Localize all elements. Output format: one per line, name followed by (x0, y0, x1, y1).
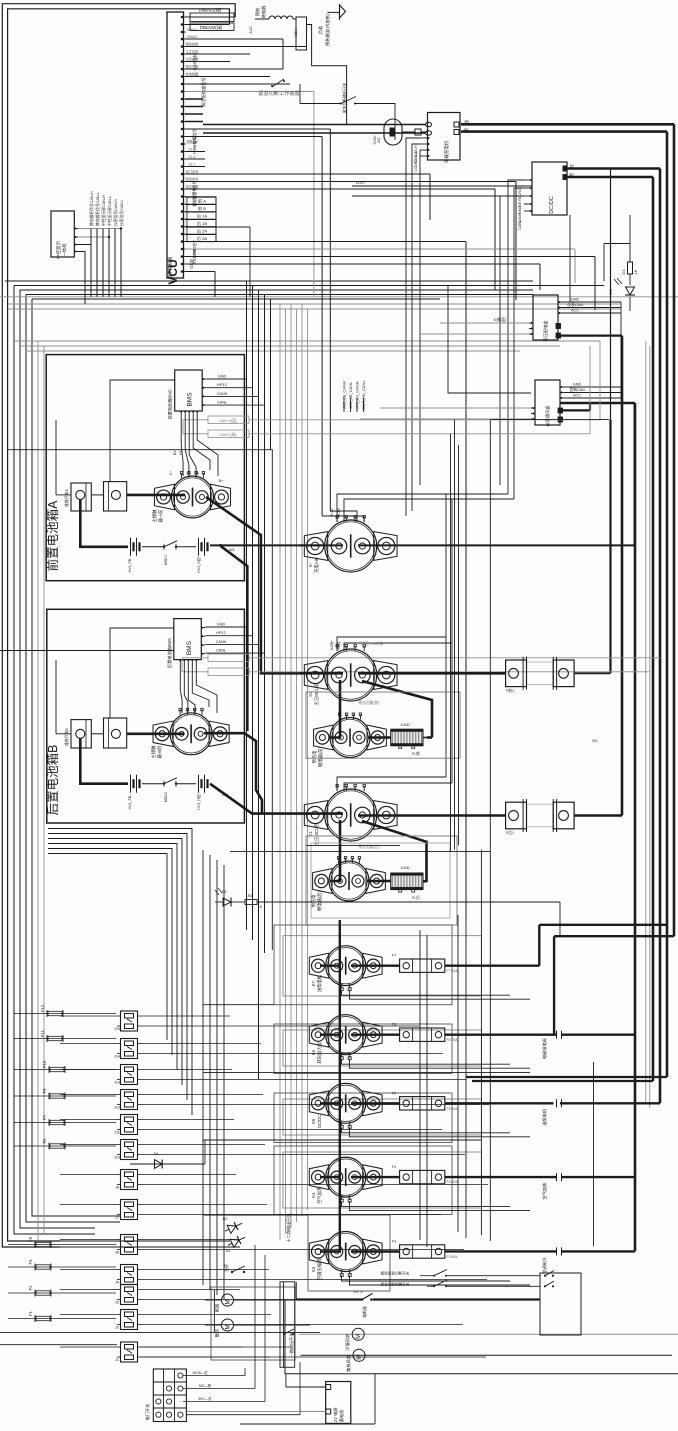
svg-text:F12: F12 (40, 1004, 45, 1012)
svg-text:CANH: CANH (216, 640, 227, 644)
svg-text:BMS: BMS (187, 392, 194, 407)
svg-text:W1: W1 (229, 548, 235, 552)
svg-text:F后1: F后1 (506, 830, 514, 835)
svg-text:16/15—红: 16/15—红 (192, 1370, 208, 1375)
svg-text:F6 20A: F6 20A (447, 1038, 459, 1042)
svg-text:M: M (226, 1300, 232, 1305)
svg-text:一体机: 一体机 (61, 243, 68, 257)
svg-text:负载: 负载 (317, 25, 324, 34)
svg-text:1K: 1K (633, 269, 638, 274)
svg-text:紧急切断工作装置: 紧急切断工作装置 (258, 89, 300, 97)
svg-text:D8&A01(绿): D8&A01(绿) (199, 7, 222, 13)
svg-text:后 1B: 后 1B (197, 220, 207, 226)
svg-text:中控显示: 中控显示 (55, 241, 62, 259)
svg-text:J4: J4 (115, 1281, 119, 1285)
svg-text:J2: J2 (115, 1326, 119, 1330)
svg-text:B+: B+ (219, 479, 225, 483)
svg-text:后置电池箱B: 后置电池箱B (45, 745, 60, 816)
svg-text:HP12: HP12 (216, 631, 226, 635)
svg-text:继电器(后): 继电器(后) (316, 890, 323, 911)
svg-text:100Ω: 100Ω (400, 866, 409, 870)
svg-text:仪表CAN: 仪表CAN (567, 302, 583, 307)
svg-text:K2线-: K2线- (336, 640, 341, 650)
svg-text:电磁吸堵阀: 电磁吸堵阀 (541, 1038, 548, 1059)
svg-text:CAN H(蓝): CAN H(蓝) (219, 418, 238, 423)
svg-text:主接触: 主接触 (151, 509, 158, 523)
svg-text:仪表信号CAN-L: 仪表信号CAN-L (119, 199, 124, 226)
svg-text:转向拨杆信号CAN-L: 转向拨杆信号CAN-L (95, 192, 100, 226)
svg-text:仪表信号CAN-H: 仪表信号CAN-H (113, 199, 118, 226)
svg-text:100Ω: 100Ω (400, 723, 409, 727)
svg-text:K-B2: K-B2 (337, 508, 341, 516)
svg-text:CANL: CANL (217, 401, 227, 405)
svg-text:CC: CC (414, 166, 418, 172)
svg-text:预充回路(后): 预充回路(后) (358, 844, 380, 849)
svg-text:D5&A2: D5&A2 (187, 35, 197, 39)
svg-text:预热塞(缸内加热): 预热塞(缸内加热) (324, 13, 331, 46)
svg-text:J8: J8 (115, 1186, 119, 1190)
svg-text:ACC: ACC (571, 309, 579, 313)
svg-text:GND: GND (218, 375, 227, 379)
svg-text:D2: D2 (223, 1217, 228, 1221)
svg-text:F9: F9 (42, 1088, 47, 1094)
svg-text:K6: K6 (311, 1049, 316, 1055)
svg-text:K-: K- (308, 562, 313, 567)
svg-text:F7 30A: F7 30A (447, 969, 459, 973)
svg-text:B1+: B1+ (173, 449, 177, 456)
svg-text:12V 电源: 12V 电源 (332, 1407, 339, 1425)
svg-text:F7: F7 (42, 1114, 47, 1120)
svg-text:后 2B: 后 2B (197, 235, 207, 241)
svg-text:高压配电盒信号: 高压配电盒信号 (200, 77, 207, 106)
svg-text:D8&A02(绿): D8&A02(绿) (200, 24, 223, 30)
svg-text:主接触: 主接触 (150, 745, 157, 759)
svg-text:KEY3: KEY3 (518, 197, 522, 207)
svg-text:GND: GND (414, 159, 418, 168)
svg-text:整车控制器: 整车控制器 (167, 256, 174, 279)
svg-text:220V: 220V (372, 135, 377, 145)
svg-text:F2: F2 (28, 1285, 33, 1291)
svg-text:K1-7: K1-7 (189, 162, 196, 166)
svg-text:GND: GND (571, 298, 580, 302)
svg-text:线圈Y0.8并联: 线圈Y0.8并联 (361, 641, 384, 646)
svg-text:前置电池箱BMS: 前置电池箱BMS (167, 389, 174, 419)
svg-text:转向助力泵: 转向助力泵 (316, 1041, 323, 1063)
svg-text:HV2_N回: HV2_N回 (196, 557, 201, 573)
svg-text:F4 30A: F4 30A (447, 1180, 459, 1184)
svg-text:J15: J15 (114, 1027, 120, 1031)
svg-text:高压配电盒: 高压配电盒 (542, 320, 549, 342)
svg-text:主正MCU前: 主正MCU前 (313, 682, 320, 705)
svg-text:空调制冷: 空调制冷 (541, 1257, 548, 1274)
svg-text:W2: W2 (222, 793, 228, 797)
svg-text:维修开关B: 维修开关B (64, 728, 69, 746)
svg-text:解除紧急切断开关: 解除紧急切断开关 (381, 1271, 410, 1276)
svg-text:F5 40A: F5 40A (447, 1107, 459, 1111)
svg-text:前 A: 前 A (198, 198, 206, 204)
svg-text:中控显示屏CAN-L: 中控显示屏CAN-L (107, 196, 112, 226)
svg-text:HV1_N回: HV1_N回 (196, 794, 201, 810)
svg-text:冷凝风扇: 冷凝风扇 (344, 1334, 351, 1351)
svg-text:ACC: ACC (573, 394, 581, 398)
svg-text:熔断器: 熔断器 (362, 1306, 367, 1318)
svg-text:HP12: HP12 (217, 383, 227, 387)
svg-text:车载充电机: 车载充电机 (443, 140, 450, 163)
svg-text:充电唤醒: 充电唤醒 (186, 71, 200, 76)
svg-text:后 2A: 后 2A (197, 228, 207, 234)
svg-text:后置电池箱BMS: 后置电池箱BMS (166, 638, 173, 668)
svg-text:J10: J10 (114, 1156, 120, 1160)
svg-text:D4: D4 (621, 269, 626, 275)
svg-text:预热控制: 预热控制 (186, 41, 199, 46)
svg-text:急停: 急停 (224, 1264, 229, 1272)
svg-text:预充回路(前): 预充回路(前) (358, 700, 380, 705)
svg-text:紧急切断报警开关: 紧急切断报警开关 (381, 1282, 410, 1287)
svg-text:DC/DC: DC/DC (317, 1114, 322, 1128)
svg-text:CANL: CANL (518, 220, 522, 230)
svg-text:D1: D1 (226, 1249, 231, 1253)
svg-text:HV2_FB-: HV2_FB- (128, 557, 132, 573)
svg-text:散热风扇: 散热风扇 (345, 1355, 352, 1372)
svg-text:前 B: 前 B (198, 205, 206, 211)
svg-text:空气加热: 空气加热 (316, 1186, 323, 1204)
svg-text:J1: J1 (115, 1358, 119, 1362)
svg-text:K7: K7 (311, 980, 316, 986)
svg-text:后 1A: 后 1A (197, 213, 207, 219)
svg-text:A15: A15 (248, 26, 253, 34)
svg-text:仪表通讯盒: 仪表通讯盒 (544, 405, 551, 427)
svg-text:J3: J3 (115, 1301, 119, 1305)
svg-text:GND: GND (217, 623, 226, 627)
svg-text:预热: 预热 (254, 7, 261, 16)
svg-text:K4: K4 (311, 1192, 316, 1198)
svg-text:HV1_FB-: HV1_FB- (128, 794, 132, 810)
svg-text:J7: J7 (115, 1216, 119, 1220)
svg-text:红: 红 (568, 164, 574, 168)
svg-text:BMS: BMS (186, 640, 193, 655)
svg-text:转向拨杆信号CAN-H: 转向拨杆信号CAN-H (89, 191, 94, 226)
svg-text:NO—棕: NO—棕 (199, 1383, 212, 1388)
svg-text:CANL: CANL (216, 649, 226, 653)
svg-text:D4: D4 (154, 1152, 159, 1156)
svg-text:继电器(前): 继电器(前) (317, 746, 324, 767)
svg-text:12V0: 12V0 (356, 181, 365, 185)
svg-text:F10: F10 (42, 1060, 47, 1068)
svg-text:R3: R3 (248, 894, 253, 898)
svg-text:油门信号: 油门信号 (186, 169, 199, 174)
svg-text:空调压缩机: 空调压缩机 (316, 1258, 323, 1280)
svg-text:F5: F5 (28, 1236, 33, 1242)
svg-text:J11: J11 (114, 1131, 120, 1135)
svg-text:预充电: 预充电 (311, 750, 318, 764)
svg-text:GND: GND (573, 383, 582, 387)
svg-text:F7: F7 (392, 954, 396, 958)
svg-text:中控显示屏CAN-H: 中控显示屏CAN-H (101, 195, 106, 226)
svg-text:器-B后: 器-B后 (156, 745, 163, 759)
svg-text:电门开关: 电门开关 (144, 1404, 151, 1421)
svg-text:器-A前: 器-A前 (157, 509, 164, 523)
svg-text:M: M (357, 1355, 363, 1360)
svg-text:F前1: F前1 (506, 688, 514, 693)
svg-text:前置电池箱A: 前置电池箱A (45, 500, 60, 572)
svg-text:M: M (356, 1334, 362, 1339)
svg-text:F3 60A: F3 60A (447, 1255, 459, 1259)
svg-text:J6: J6 (115, 1251, 119, 1255)
svg-text:F1: F1 (28, 1310, 33, 1316)
svg-text:蓄电池: 蓄电池 (338, 1409, 345, 1422)
svg-text:F3: F3 (28, 1259, 33, 1265)
svg-text:F6: F6 (42, 1138, 47, 1144)
svg-text:K线(蓝): K线(蓝) (494, 317, 507, 322)
svg-text:50V—灰: 50V—灰 (198, 1396, 212, 1401)
svg-text:CANH: CANH (217, 392, 228, 396)
svg-text:DC/DC: DC/DC (549, 196, 555, 213)
svg-text:充电AIR: 充电AIR (313, 557, 320, 573)
svg-text:F3: F3 (392, 1240, 396, 1244)
svg-text:R-前: R-前 (412, 751, 420, 756)
svg-text:MSD2: MSD2 (164, 792, 168, 803)
svg-text:一路输出开关: 一路输出开关 (288, 1332, 295, 1357)
svg-text:继电器: 继电器 (260, 5, 267, 18)
svg-text:空气加热: 空气加热 (541, 1182, 548, 1200)
svg-text:MSD1: MSD1 (164, 555, 168, 566)
svg-text:W1: W1 (592, 739, 598, 743)
svg-text:K-B1: K-B1 (330, 508, 334, 516)
svg-text:K5: K5 (311, 1118, 316, 1124)
svg-text:F5: F5 (392, 1091, 396, 1095)
svg-text:R-后: R-后 (412, 895, 420, 900)
svg-text:主正控制: 主正控制 (186, 49, 199, 54)
svg-text:CAN L(绿): CAN L(绿) (219, 432, 237, 437)
svg-text:主正MCU后: 主正MCU后 (313, 822, 320, 845)
svg-text:维修开关A: 维修开关A (64, 489, 69, 507)
svg-text:K2线+: K2线+ (329, 640, 334, 650)
svg-text:音响CAN: 音响CAN (569, 387, 585, 392)
svg-text:十二路输出开关: 十二路输出开关 (285, 1213, 292, 1242)
svg-text:B1-: B1- (179, 448, 183, 454)
svg-text:D5&A1: D5&A1 (187, 28, 197, 32)
svg-text:1K: 1K (258, 905, 263, 909)
svg-text:F4: F4 (392, 1165, 396, 1169)
svg-text:油泵电机: 油泵电机 (316, 974, 323, 992)
svg-text:黑: 黑 (569, 173, 574, 177)
svg-text:K3: K3 (311, 1266, 316, 1272)
svg-text:K1-6: K1-6 (189, 155, 196, 159)
svg-text:J13: J13 (114, 1081, 120, 1085)
svg-text:M: M (226, 1325, 232, 1330)
svg-text:油泵电机: 油泵电机 (541, 1108, 548, 1126)
svg-text:F11: F11 (40, 1029, 45, 1037)
svg-text:J14: J14 (114, 1055, 120, 1059)
svg-text:J12: J12 (114, 1106, 120, 1110)
svg-text:K3', 3: K3', 3 (354, 1290, 363, 1294)
svg-text:K+: K+ (169, 471, 173, 475)
